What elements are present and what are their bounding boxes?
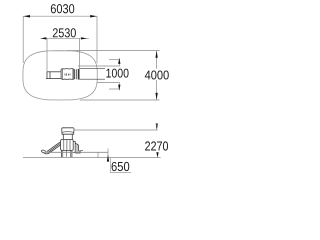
- dimension 2270 text: [145, 141, 168, 150]
- dimension 6030 text: [51, 4, 74, 13]
- 6030 left arrow: [23, 15, 30, 18]
- ground surface line: [44, 151, 108, 153]
- legs below ground: [61, 150, 63, 157]
- 650 text frame: [110, 158, 131, 173]
- 6030 left extension line: [22, 16, 24, 63]
- 2270 bottom arrow: [156, 152, 158, 157]
- 1000 dim line lower segment: [118, 82, 120, 89]
- top view dark bar: [78, 69, 80, 80]
- left arm with curl: [41, 143, 60, 154]
- 1000 lower arrow: [118, 85, 120, 91]
- 4000 dim line upper segment: [156, 51, 158, 69]
- 1000 top jog: [109, 58, 119, 60]
- top view beam: [46, 72, 61, 79]
- 1000 bottom jog: [109, 88, 119, 90]
- 4000 extension line bottom: [80, 99, 160, 101]
- right bracket: [73, 141, 80, 153]
- 1000 extension line top: [78, 65, 120, 67]
- spring block: [61, 139, 74, 150]
- 4000 dim line lower segment: [156, 80, 158, 100]
- 650 arrow: [107, 155, 109, 162]
- equipment rails extending right: [80, 67, 105, 69]
- dimension 4000 text: [145, 71, 169, 80]
- top view seat body: [61, 69, 74, 80]
- dimension 6030 line: [23, 15, 97, 17]
- dimension 2530 text: [53, 28, 76, 37]
- 6030 right extension line: [96, 16, 98, 63]
- seat block: [62, 128, 74, 134]
- 650 right extension stub: [107, 149, 109, 158]
- 1000 extension line bottom: [97, 81, 119, 83]
- 2530 right arrow: [81, 37, 87, 39]
- 2270 top leader line: [74, 128, 158, 130]
- 1000 dim line upper segment: [118, 59, 120, 66]
- waist columns: [62, 134, 64, 139]
- top view bracket lines: [74, 69, 76, 79]
- 2530 right extension line: [78, 38, 80, 68]
- 1000 upper arrow: [118, 58, 120, 64]
- 6030 right arrow: [90, 15, 97, 18]
- dimension 2530 line: [41, 37, 89, 39]
- 4000 extension line top: [67, 50, 160, 52]
- seat centre marks: [65, 73, 70, 75]
- 2270 top arrow: [156, 124, 158, 131]
- 4000 upper arrow: [155, 51, 157, 58]
- lower reference line: [23, 157, 161, 159]
- 4000 lower arrow: [155, 93, 157, 100]
- seat inner edges: [62, 69, 73, 79]
- side view springer: [41, 128, 83, 157]
- 2530 left arrow: [41, 37, 47, 39]
- 2530 left extension line: [46, 38, 48, 71]
- safety zone oval (top view): [23, 51, 97, 100]
- dimension 1000 text: [106, 69, 128, 78]
- 650 left extension stub: [97, 152, 99, 157]
- dimension 650 text: [112, 162, 130, 171]
